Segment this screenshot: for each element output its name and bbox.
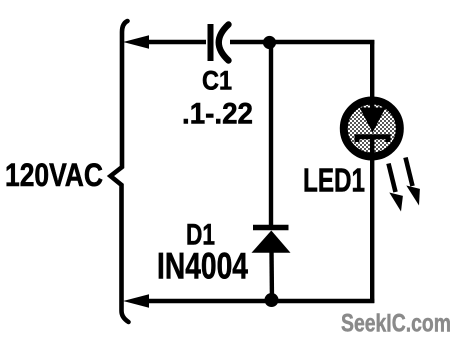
LED LED1 chip xyxy=(357,99,388,160)
capacitor C1 xyxy=(211,24,229,61)
wire middle branch upper xyxy=(269,45,273,228)
LED LED1 body xyxy=(344,101,400,157)
light emission arrow left xyxy=(389,164,403,212)
svg-text:C1: C1 xyxy=(202,66,232,96)
svg-text:120VAC: 120VAC xyxy=(5,157,103,193)
diode D1 xyxy=(252,228,291,253)
source bracket 120VAC lead xyxy=(111,21,129,322)
wire right rail xyxy=(370,40,374,303)
svg-text:IN4004: IN4004 xyxy=(157,246,248,287)
svg-text:SeekIC.com: SeekIC.com xyxy=(341,310,451,338)
wire top-left with arrow to source xyxy=(123,35,206,48)
wire middle branch lower xyxy=(269,251,274,302)
svg-text:.1-.22: .1-.22 xyxy=(182,98,253,131)
light emission arrow right xyxy=(406,158,420,206)
svg-text:LED1: LED1 xyxy=(303,162,365,199)
wire bottom with arrow to source xyxy=(123,294,374,307)
node junction top xyxy=(263,36,276,49)
wire top-right xyxy=(230,40,374,44)
node junction bottom xyxy=(265,293,279,307)
